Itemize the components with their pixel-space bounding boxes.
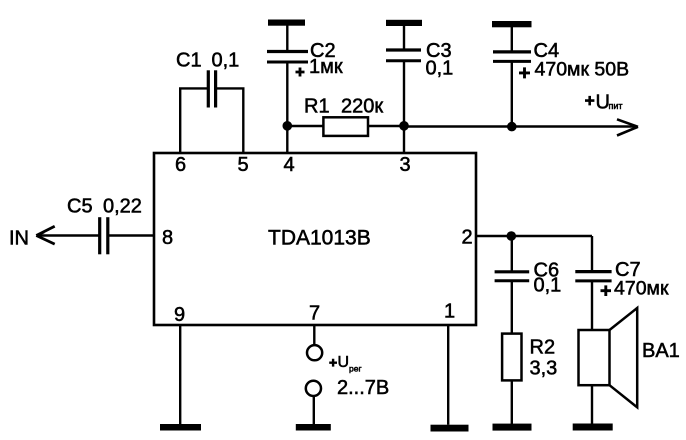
wire node4 to R1 <box>287 125 323 127</box>
svg-text:470мк 50В: 470мк 50В <box>535 59 630 81</box>
C4 polarity plus <box>519 67 530 78</box>
capacitor C2 plates <box>267 52 308 63</box>
wire C7 to speaker <box>591 281 593 330</box>
ground (below pin 9) <box>160 424 201 431</box>
svg-text:3: 3 <box>400 154 411 176</box>
ground (top rail above C4) <box>492 21 532 27</box>
capacitor C3 plates <box>386 50 421 61</box>
svg-text:9: 9 <box>174 304 185 326</box>
svg-text:0,22: 0,22 <box>103 195 142 217</box>
svg-text:3,3: 3,3 <box>530 358 558 380</box>
wire C5 to pin 8 <box>108 234 154 236</box>
svg-text:0,1: 0,1 <box>534 275 562 297</box>
wire terminal to ground <box>313 396 315 424</box>
wire node4 to pin 4 <box>286 126 288 153</box>
svg-text:8: 8 <box>162 227 173 249</box>
wire ground to C3 <box>403 25 405 50</box>
svg-text:R2: R2 <box>530 336 556 358</box>
junction node 3 <box>399 121 409 131</box>
svg-text:6: 6 <box>175 154 186 176</box>
ground (below pin 7 terminals) <box>296 424 331 431</box>
wire ground to C2 <box>286 25 288 51</box>
wire R2 to ground <box>511 380 513 424</box>
svg-text:2: 2 <box>462 226 473 248</box>
wire speaker to ground <box>591 385 593 424</box>
svg-text:IN: IN <box>9 227 29 249</box>
wire C1 right riser (pin 5) <box>242 88 244 153</box>
+Upit net label <box>585 91 623 113</box>
svg-text:0,1: 0,1 <box>426 58 454 80</box>
+Upeg label <box>329 354 361 374</box>
wire C1 left riser (pin 6) <box>179 88 181 153</box>
svg-text:U: U <box>338 354 350 371</box>
capacitor C6 plates <box>495 272 530 281</box>
svg-text:R1: R1 <box>304 96 330 118</box>
svg-text:рег: рег <box>349 364 362 374</box>
capacitor C7 plates <box>575 272 611 281</box>
terminal circle lower <box>306 381 321 396</box>
wire node3 to pin 3 <box>403 126 405 153</box>
wire C6 to R2 <box>511 281 513 334</box>
wire C1 right horizontal <box>216 87 245 89</box>
junction node C4/rail <box>507 122 517 132</box>
loudspeaker BA1 <box>579 308 638 407</box>
wire pin 2 to C7 corner <box>476 235 592 237</box>
wire corner down to C7 <box>591 236 593 272</box>
svg-text:0,1: 0,1 <box>212 50 240 72</box>
svg-text:4: 4 <box>284 154 295 176</box>
wire R1 to node3 <box>368 125 404 127</box>
svg-text:TDA1013B: TDA1013B <box>268 227 371 250</box>
C2 polarity plus <box>296 68 305 77</box>
wire ground to C4 <box>511 26 513 52</box>
supply rail wire node3 to arrow <box>404 125 636 127</box>
svg-text:BA1: BA1 <box>642 340 680 362</box>
terminal circle upper (+Upeg input) <box>307 345 322 360</box>
capacitor C4 plates <box>493 52 531 62</box>
resistor R1 <box>323 117 368 136</box>
svg-text:1: 1 <box>444 301 455 323</box>
junction node 4 <box>283 121 293 131</box>
wire C3 to node 3 <box>403 61 405 126</box>
svg-text:2...7В: 2...7В <box>337 377 389 399</box>
svg-text:пит: пит <box>609 101 623 111</box>
ground (below pin 1) <box>431 425 469 432</box>
wire pin 1 to ground <box>447 325 449 425</box>
svg-text:1мк: 1мк <box>309 56 343 78</box>
ground (top rail above C2) <box>268 20 305 26</box>
svg-text:220к: 220к <box>341 96 383 118</box>
+Upit supply arrow head <box>617 119 638 135</box>
svg-text:470мк: 470мк <box>614 278 669 300</box>
IC U1 TDA1013B body <box>154 153 476 325</box>
svg-text:C1: C1 <box>176 50 202 72</box>
ground (top rail above C3) <box>386 20 422 26</box>
ground (below R2) <box>493 424 532 431</box>
wire C4 to supply rail <box>511 61 513 127</box>
svg-text:5: 5 <box>238 154 249 176</box>
capacitor C5 plates <box>100 217 108 254</box>
wire C1 left horizontal <box>179 87 208 89</box>
ground (below BA1) <box>573 424 613 431</box>
wire pin 7 to terminal <box>313 325 315 344</box>
wire pin 9 to ground <box>179 325 181 424</box>
C7 polarity plus <box>601 285 612 296</box>
wire node2 down to C6 <box>511 236 513 272</box>
junction node 2 <box>507 231 517 241</box>
svg-text:C5: C5 <box>67 195 93 217</box>
IN arrow head <box>36 226 54 244</box>
wire C2 to node 4 <box>286 62 288 126</box>
svg-text:7: 7 <box>309 303 320 325</box>
wire IN to C5 <box>37 234 100 236</box>
capacitor C1 plates <box>208 70 215 107</box>
resistor R2 <box>502 334 521 381</box>
